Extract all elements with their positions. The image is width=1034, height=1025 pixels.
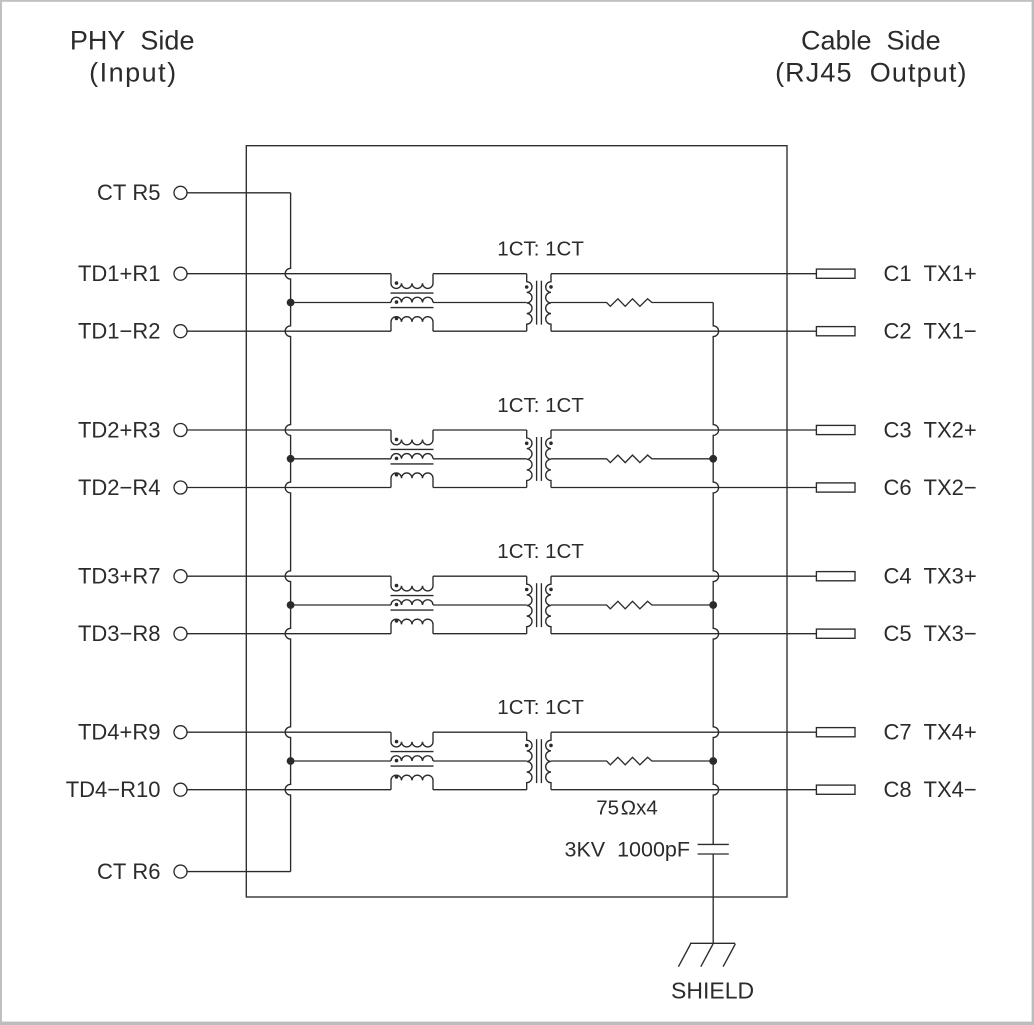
svg-text:C4: C4 bbox=[884, 564, 912, 589]
svg-text:TD1−R2: TD1−R2 bbox=[78, 319, 161, 344]
svg-text:TX3−: TX3− bbox=[924, 621, 977, 646]
wire transformer to pad TX1- bbox=[551, 330, 816, 332]
wire transformer to pad TX3+ bbox=[551, 575, 816, 577]
svg-text:TX3+: TX3+ bbox=[924, 564, 977, 589]
junction resistor to termination bus channel 2 bbox=[709, 455, 717, 463]
pad C5 TX3&#8722; bbox=[816, 629, 855, 638]
shield ground symbol bbox=[690, 942, 735, 944]
wire choke to transformer ct channel 4 bbox=[433, 760, 527, 762]
svg-text:TX2+: TX2+ bbox=[924, 417, 977, 442]
wire choke to transformer top channel 4 bbox=[433, 731, 527, 733]
pad C4 TX3+ bbox=[816, 572, 855, 581]
svg-text:TX1+: TX1+ bbox=[924, 261, 977, 286]
svg-text:TD2−R4: TD2−R4 bbox=[78, 475, 161, 500]
wire TD3+ to choke bbox=[187, 575, 391, 577]
svg-text:C3: C3 bbox=[884, 417, 912, 442]
svg-text:75 Ωx4: 75 Ωx4 bbox=[596, 797, 658, 820]
junction center tap channel 2 bbox=[287, 455, 295, 463]
svg-text:C6: C6 bbox=[884, 475, 912, 500]
svg-text:TX2−: TX2− bbox=[924, 475, 977, 500]
wire TD1+ to choke bbox=[187, 273, 391, 275]
svg-text:3KV 1000pF: 3KV 1000pF bbox=[564, 837, 690, 861]
svg-text:1CT: 1CT: 1CT: 1CT bbox=[497, 238, 584, 261]
pad C1 TX1+ bbox=[816, 269, 855, 278]
wire CT R5 to center-tap bus bbox=[187, 192, 291, 194]
wire transformer to pad TX3- bbox=[551, 633, 816, 635]
transformer T3 1CT:1CT bbox=[527, 576, 532, 634]
wire choke to transformer bottom channel 4 bbox=[433, 789, 527, 791]
wire center tap channel 4 bbox=[291, 760, 391, 762]
wire TD1- to choke bbox=[187, 330, 391, 332]
wire TD2- to choke bbox=[187, 487, 391, 489]
svg-text:TX4+: TX4+ bbox=[924, 720, 977, 745]
svg-text:1CT: 1CT: 1CT: 1CT bbox=[497, 696, 584, 719]
center-tap bus (CT R5 to CT R6) with hops bbox=[285, 193, 290, 872]
svg-text:CT R5: CT R5 bbox=[97, 180, 161, 205]
wire CT R6 to center-tap bus bbox=[187, 871, 291, 873]
svg-text:TX4−: TX4− bbox=[924, 777, 977, 802]
resistor 75Ω channel 2 bbox=[551, 455, 713, 463]
svg-text:TD3+R7: TD3+R7 bbox=[78, 564, 161, 589]
wire transformer to pad TX2- bbox=[551, 487, 816, 489]
junction resistor to termination bus channel 3 bbox=[709, 601, 717, 609]
svg-text:C7: C7 bbox=[884, 720, 912, 745]
wire capacitor to shield bbox=[712, 854, 714, 943]
pad C3 TX2+ bbox=[816, 425, 855, 434]
wire TD3- to choke bbox=[187, 633, 391, 635]
transformer T2 1CT:1CT bbox=[527, 430, 532, 488]
svg-text:Cable Side: Cable Side bbox=[801, 25, 941, 55]
resistor 75Ω channel 3 bbox=[551, 601, 713, 609]
common-mode choke channel 1 bbox=[391, 274, 433, 289]
svg-text:1CT: 1CT: 1CT: 1CT bbox=[497, 540, 584, 563]
capacitor 3KV 1000pF bbox=[698, 843, 729, 845]
junction center tap channel 1 bbox=[287, 299, 295, 307]
wire choke to transformer bottom channel 1 bbox=[433, 330, 527, 332]
resistor 75Ω channel 1 bbox=[551, 299, 713, 307]
svg-text:SHIELD: SHIELD bbox=[671, 978, 754, 1004]
svg-text:TD2+R3: TD2+R3 bbox=[78, 417, 161, 442]
transformer T1 1CT:1CT bbox=[527, 274, 532, 332]
junction resistor to termination bus channel 4 bbox=[709, 757, 717, 765]
svg-text:TD4−R10: TD4−R10 bbox=[66, 777, 161, 802]
svg-text:CT R6: CT R6 bbox=[97, 859, 161, 884]
pad C6 TX2&#8722; bbox=[816, 483, 855, 492]
transformer T4 1CT:1CT bbox=[527, 732, 532, 790]
wire choke to transformer ct channel 1 bbox=[433, 302, 527, 304]
pad C2 TX1&#8722; bbox=[816, 327, 855, 336]
svg-text:(Input): (Input) bbox=[89, 58, 178, 88]
svg-text:C2: C2 bbox=[884, 319, 912, 344]
junction center tap channel 4 bbox=[287, 757, 295, 765]
svg-text:TD1+R1: TD1+R1 bbox=[78, 261, 161, 286]
wire transformer to pad TX4+ bbox=[551, 731, 816, 733]
junction center tap channel 3 bbox=[287, 601, 295, 609]
svg-text:TX1−: TX1− bbox=[924, 319, 977, 344]
svg-text:1CT: 1CT: 1CT: 1CT bbox=[497, 394, 584, 417]
svg-text:TD4+R9: TD4+R9 bbox=[78, 720, 161, 745]
resistor 75Ω channel 4 bbox=[551, 757, 713, 765]
common-mode choke channel 3 bbox=[391, 576, 433, 591]
wire TD4+ to choke bbox=[187, 731, 391, 733]
svg-text:C8: C8 bbox=[884, 777, 912, 802]
wire choke to transformer top channel 2 bbox=[433, 429, 527, 431]
svg-text:C5: C5 bbox=[884, 621, 912, 646]
wire choke to transformer bottom channel 3 bbox=[433, 633, 527, 635]
svg-text:TD3−R8: TD3−R8 bbox=[78, 621, 161, 646]
wire choke to transformer top channel 1 bbox=[433, 273, 527, 275]
wire choke to transformer bottom channel 2 bbox=[433, 487, 527, 489]
common-mode choke channel 2 bbox=[391, 430, 433, 445]
wire transformer to pad TX2+ bbox=[551, 429, 816, 431]
wire TD4- to choke bbox=[187, 789, 391, 791]
module outline box bbox=[246, 146, 787, 897]
wire transformer to pad TX4- bbox=[551, 789, 816, 791]
common-mode choke channel 4 bbox=[391, 732, 433, 747]
wire choke to transformer ct channel 2 bbox=[433, 458, 527, 460]
wire center tap channel 1 bbox=[291, 302, 391, 304]
svg-text:PHY Side: PHY Side bbox=[70, 25, 195, 55]
wire TD2+ to choke bbox=[187, 429, 391, 431]
svg-text:(RJ45 Output): (RJ45 Output) bbox=[775, 58, 967, 88]
svg-text:C1: C1 bbox=[884, 261, 912, 286]
wire center tap channel 2 bbox=[291, 458, 391, 460]
pad C8 TX4&#8722; bbox=[816, 785, 855, 794]
wire choke to transformer top channel 3 bbox=[433, 575, 527, 577]
wire choke to transformer ct channel 3 bbox=[433, 604, 527, 606]
wire transformer to pad TX1+ bbox=[551, 273, 816, 275]
pad C7 TX4+ bbox=[816, 728, 855, 737]
termination bus to capacitor with hops bbox=[713, 303, 718, 845]
wire center tap channel 3 bbox=[291, 604, 391, 606]
